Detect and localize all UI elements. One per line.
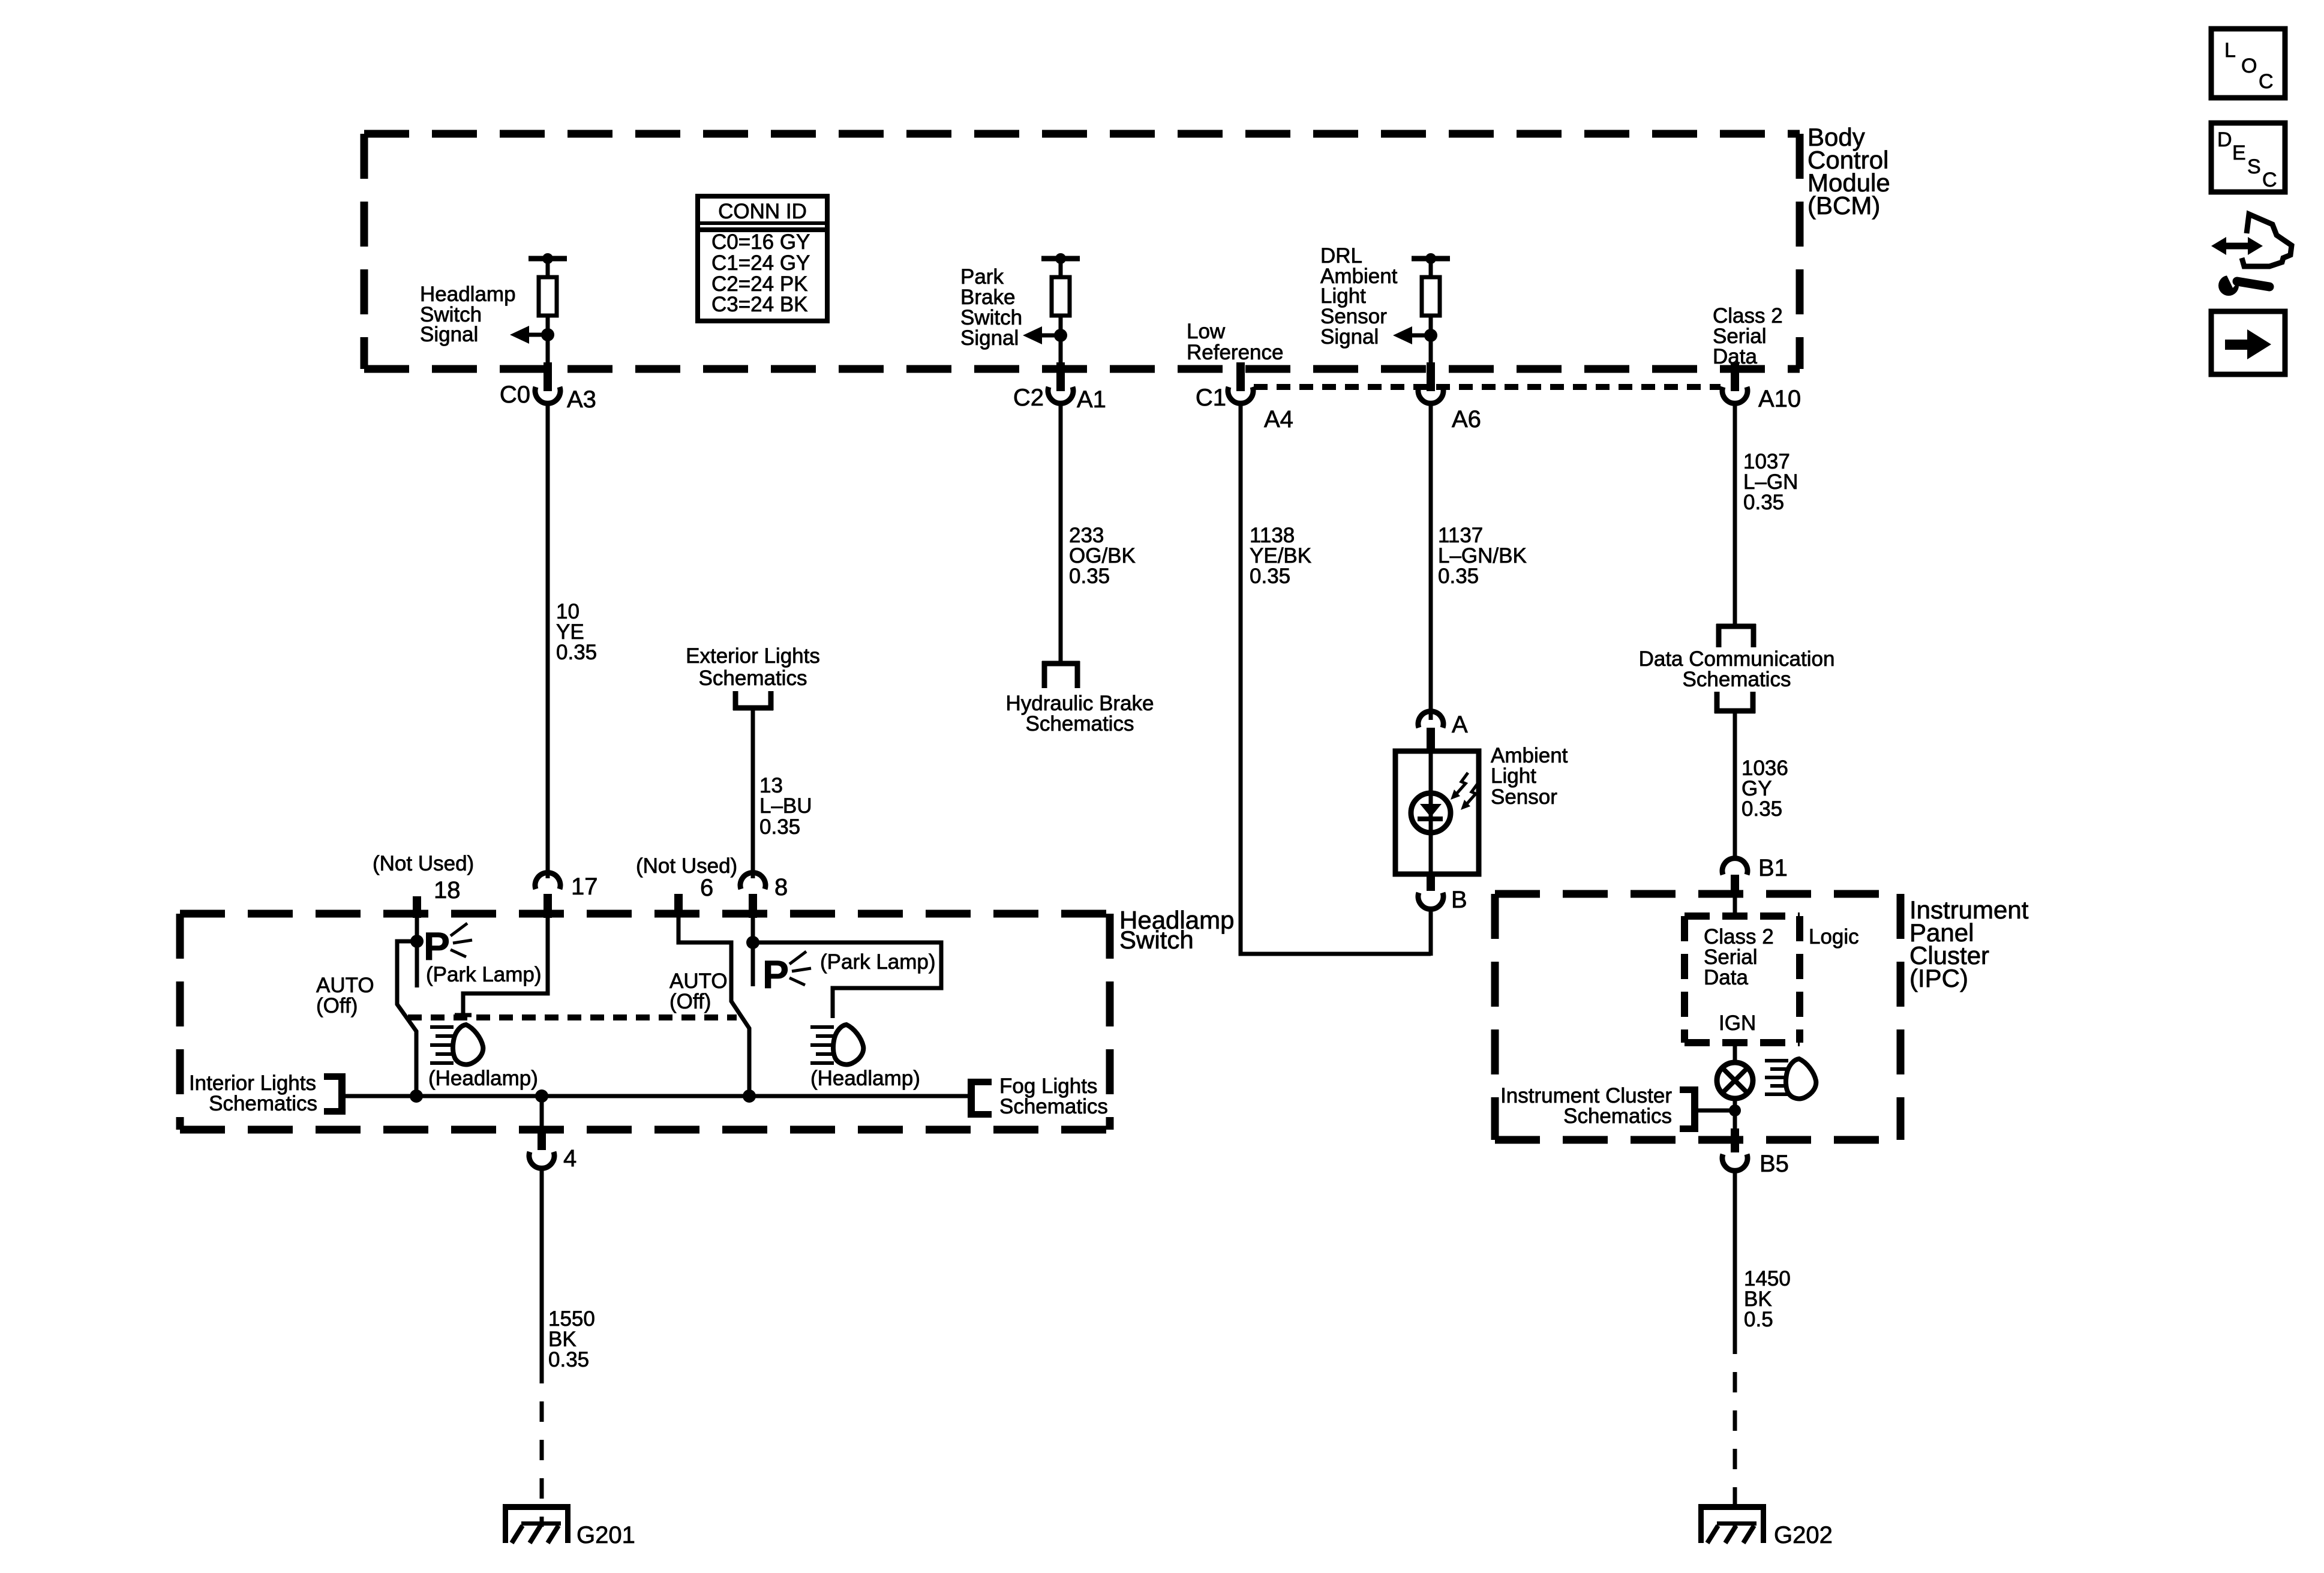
svg-text:0.35: 0.35 [548,1348,589,1371]
wire 1550 dashed segment [540,1383,544,1527]
ambient light sensor label [1491,744,1568,809]
svg-text:Reference: Reference [1187,341,1283,364]
park contact T left [455,1013,472,1017]
svg-text:B5: B5 [1759,1151,1789,1177]
svg-text:C3=24 BK: C3=24 BK [711,293,808,316]
Body Control Module (BCM) dashed box [364,134,1800,369]
switch blade right (AUTO/Off) [678,914,749,1096]
instrument cluster schematics label [1500,1084,1672,1128]
svg-text:O: O [2241,55,2257,77]
resistor R3 pivot bar [1412,253,1450,277]
forward arrow icon box [2211,311,2285,374]
resistor R2 (park brake switch signal) [1052,277,1070,316]
resistor R3 (DRL ambient light sensor signal) [1422,277,1440,316]
connector C2 A1 [1013,385,1106,413]
bus node right blade [743,1089,756,1103]
svg-text:(BCM): (BCM) [1807,191,1880,220]
LOC icon box [2211,29,2285,98]
headlamp switch dashed box [180,914,1110,1130]
ambient light sensor box [1395,751,1479,874]
wire label 10 YE 0.35 [556,600,597,664]
node switch right pivot [746,936,759,949]
inner dotted line C1 to A10 [1254,384,1721,390]
switch blade left (AUTO/Off) [397,941,417,1096]
svg-text:D: D [2217,128,2232,151]
svg-text:(Headlamp): (Headlamp) [810,1067,920,1090]
photodiode triangle [1420,804,1442,817]
svg-text:(Not Used): (Not Used) [636,854,737,878]
exterior lights schematics label [686,644,820,690]
AUTO (Off) label left [316,974,374,1017]
node junction col2 [1054,329,1067,342]
wire to B1 [1733,711,1737,860]
mechanical link dotted line [408,1014,737,1020]
sensor internal wire [1429,751,1433,874]
svg-text:P: P [762,952,789,996]
svg-text:Switch: Switch [1119,926,1194,954]
class 2 serial data logic dashed box [1685,916,1800,1043]
connector B5 [1722,1151,1789,1177]
svg-text:IGN: IGN [1719,1011,1756,1035]
instrument cluster bracket [1680,1086,1698,1132]
signal arrow col2 [1023,326,1061,344]
svg-text:(IPC): (IPC) [1909,964,1968,992]
svg-text:Signal: Signal [960,326,1019,350]
pin 6 stub [674,894,683,915]
wire B1 into logic box [1733,897,1737,918]
ground G201 [503,1504,635,1548]
svg-text:G201: G201 [577,1522,635,1548]
instrument panel cluster dashed box [1495,894,1900,1140]
svg-text:0.35: 0.35 [1742,797,1782,821]
signal arrow col4 [1393,326,1431,344]
connector B1 stub [1731,875,1739,897]
svg-text:L: L [2224,39,2236,62]
wire R1 to C0 [546,316,550,371]
svg-text:A10: A10 [1758,386,1801,412]
svg-text:Schematics: Schematics [1563,1104,1672,1128]
data communication schematics label [1639,647,1835,691]
wire 1450 solid segment [1733,1169,1737,1354]
connector A10 [1722,386,1801,412]
low reference label [1187,320,1283,364]
pin 17 stub [544,894,552,918]
connector pin 4 [529,1145,577,1172]
connector pin 8 [740,873,788,900]
svg-text:0.35: 0.35 [1250,565,1290,588]
ground G202 [1698,1504,1833,1548]
svg-text:(Headlamp): (Headlamp) [428,1067,538,1090]
wire instrument cluster tap [1698,1109,1735,1113]
indicator bulb [1717,1062,1753,1098]
svg-text:0.35: 0.35 [556,641,597,664]
pin 18 stub [413,896,421,918]
wire A3 to pin 17 [546,402,550,878]
svg-text:17: 17 [571,873,598,900]
svg-text:A1: A1 [1077,386,1106,413]
svg-text:A: A [1452,712,1468,738]
off-page staple upper (data communication) [1716,624,1756,647]
IPC module label [1909,896,2029,992]
svg-text:0.35: 0.35 [1069,565,1110,588]
svg-text:C0=16 GY: C0=16 GY [711,230,810,254]
wire pin 18 to park contact [415,917,419,987]
svg-text:Schematics: Schematics [999,1095,1108,1118]
wire sensor B down [1429,908,1433,956]
connector A (ambient light sensor) [1418,712,1468,738]
node switch left pivot [410,935,424,948]
resistor R1 (headlamp switch signal) [539,277,557,316]
wire bulb to B5 [1733,1098,1737,1130]
headlamp lens IPC [1786,1059,1816,1098]
park lamp symbol P right [762,951,811,996]
svg-text:6: 6 [700,875,713,901]
off-page staple lower (data communication) [1715,692,1755,713]
svg-text:G202: G202 [1774,1522,1833,1548]
headlamp beam lines left [430,1027,454,1063]
wire label 1036 GY 0.35 [1742,757,1788,821]
park brake switch signal label [960,265,1022,350]
interior lights schematics label [189,1071,317,1115]
node junction col1 [541,328,554,341]
class 2 serial data label (IPC) [1704,925,1774,989]
park lamp symbol P left [424,923,472,968]
photodiode cathode bar [1418,816,1443,821]
signal arrow col1 [510,326,548,344]
wire A4 to sensor B (low reference) [1241,402,1431,954]
AUTO (Off) label right [669,969,728,1013]
svg-text:0.35: 0.35 [1743,491,1784,514]
svg-text:18: 18 [434,877,461,903]
pin B5 stub [1731,1128,1739,1152]
wire bus to pin 4 [540,1096,544,1128]
fog lights bracket [968,1079,992,1118]
BCM module label [1807,123,1890,220]
repair icon double arrow [2211,237,2263,255]
svg-text:C2: C2 [1013,385,1044,411]
wire A1 to hydraulic brake [1059,402,1063,661]
wire label 1138 YE/BK 0.35 [1250,524,1311,588]
node junction col4 [1424,329,1437,342]
wire label 13 L-BU 0.35 [759,774,812,839]
svg-text:E: E [2232,142,2246,164]
photodiode circle [1411,793,1451,833]
connector B1 [1722,855,1788,881]
connector A6 [1418,387,1481,433]
svg-text:(Off): (Off) [669,990,711,1013]
connector A6 pin stub [1427,362,1435,391]
hydraulic brake schematics label [1005,692,1154,736]
svg-text:4: 4 [563,1145,577,1172]
headlamp lens right [833,1025,863,1064]
repair icon wrench [2218,269,2269,296]
wire pin 17 to park contact [463,918,548,1015]
off-page staple exterior lights [733,691,773,710]
wire R2 to C2 [1059,316,1063,371]
connector C2 A1 pin stub [1056,362,1065,391]
svg-text:A3: A3 [567,386,596,413]
svg-text:C: C [2262,169,2277,191]
wire label 1450 BK 0.5 [1744,1267,1791,1331]
svg-text:Data: Data [1704,966,1748,989]
svg-text:Signal: Signal [1320,325,1379,349]
connector C0 A3 pin stub [544,362,552,391]
svg-text:8: 8 [774,874,788,900]
svg-text:Schematics: Schematics [1683,668,1791,691]
node bulb tap [1729,1104,1741,1116]
svg-text:P: P [424,924,450,968]
svg-text:Schematics: Schematics [209,1092,317,1115]
resistor R2 pivot bar [1041,253,1080,277]
wire exterior lights to pin 8 [751,710,755,878]
DRL ambient light sensor signal label [1320,244,1398,349]
bus node left blade [410,1089,423,1103]
wire label 1550 BK 0.35 [548,1307,595,1371]
svg-text:S: S [2247,155,2261,178]
sensor pin B stub [1427,874,1435,891]
wire label 233 OG/BK 0.35 [1069,524,1136,588]
svg-text:C1=24 GY: C1=24 GY [711,251,810,275]
headlamp switch signal label [420,283,516,346]
interior lights bracket [324,1073,346,1115]
wire pin 8 to park contact right [751,918,755,986]
connector C0 A3 [500,382,596,413]
sensor pin A stub [1427,728,1435,752]
svg-text:Schematics: Schematics [1026,712,1134,736]
svg-text:Low: Low [1187,320,1226,343]
CONN ID table [698,196,827,321]
headlamp lens left [453,1025,483,1064]
svg-text:Exterior Lights: Exterior Lights [686,644,820,668]
fog lights schematics label [999,1074,1108,1118]
svg-text:Logic: Logic [1809,925,1859,948]
DESC icon box [2211,123,2285,192]
connector C1 A4 pin stub [1236,362,1245,391]
headlamp switch module label [1119,906,1234,954]
headlamp beam lines right [810,1027,834,1063]
svg-text:Signal: Signal [420,323,478,346]
wire 1550 solid segment [540,1167,544,1383]
svg-text:(Park Lamp): (Park Lamp) [820,950,936,974]
repair icon outline [2242,214,2292,266]
svg-text:C: C [2259,70,2274,93]
park lamp contact loop right [753,942,941,1018]
wire logic box to indicator bulb [1733,1043,1737,1064]
svg-text:B: B [1451,887,1467,913]
svg-text:Schematics: Schematics [699,667,807,690]
svg-text:Light: Light [1491,764,1536,788]
svg-text:L–BU: L–BU [759,794,812,818]
svg-text:(Not Used): (Not Used) [373,852,474,875]
svg-text:(Park Lamp): (Park Lamp) [426,963,542,986]
svg-text:Sensor: Sensor [1491,785,1557,809]
svg-text:0.35: 0.35 [1438,565,1479,588]
svg-text:C1: C1 [1196,385,1226,411]
light ray arrow 2 [1461,783,1478,810]
connector C1 A4 [1196,385,1293,433]
light ray arrow 1 [1451,773,1468,800]
off-page staple to hydraulic brake [1042,661,1080,688]
wire label 1037 L-GN 0.35 [1743,450,1798,514]
svg-text:0.35: 0.35 [759,815,800,839]
svg-text:CONN ID: CONN ID [718,200,807,223]
svg-text:0.5: 0.5 [1744,1308,1773,1331]
headlamp beam lines IPC [1765,1061,1788,1094]
svg-text:A6: A6 [1452,406,1481,433]
wire R3 to A6 [1429,316,1433,371]
resistor R1 pivot bar [529,253,567,277]
connector pin 17 [535,873,598,900]
svg-text:A4: A4 [1264,406,1293,433]
switch common bus wire [346,1094,971,1098]
pin 4 stub [538,1126,546,1150]
svg-text:(Off): (Off) [316,994,358,1017]
class 2 serial data label (BCM) [1713,304,1783,368]
connector A10 pin stub [1731,362,1739,391]
svg-text:C0: C0 [500,382,530,408]
connector B (ambient light sensor) [1418,887,1467,913]
wire A6 to sensor A [1429,402,1433,720]
pin 8 stub [749,894,757,918]
wire label 1137 L-GN/BK 0.35 [1438,524,1527,588]
wire A10 to data communication [1733,402,1737,626]
wire 1450 dashed segment [1733,1354,1737,1527]
svg-text:B1: B1 [1758,855,1788,881]
bus node ground tap [535,1089,548,1103]
